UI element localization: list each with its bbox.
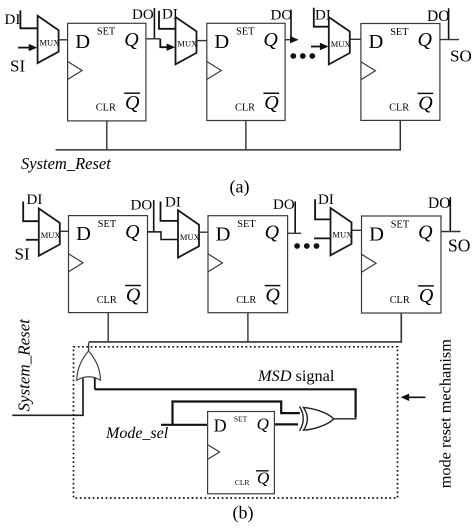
wire CLR bus (part b) bbox=[89, 313, 402, 342]
wire DO tap (stage 3, part b) bbox=[449, 197, 451, 231]
ellipsis dots (part a) bbox=[290, 53, 315, 59]
svg-text:Q: Q bbox=[257, 469, 269, 488]
wire FF5 Q output bbox=[288, 232, 301, 234]
wire DI1 to MUX U4 bbox=[23, 202, 39, 222]
svg-text:CLR: CLR bbox=[235, 103, 255, 114]
dashed box: mode reset mechanism bbox=[74, 347, 398, 498]
wire SI into MUX U4 bbox=[26, 239, 39, 241]
svg-text:DI: DI bbox=[27, 192, 43, 208]
svg-text:MUX: MUX bbox=[332, 230, 352, 240]
MUX U4 (part b) bbox=[39, 209, 61, 256]
svg-text:(b): (b) bbox=[233, 503, 254, 524]
OR gate U7 output stub bbox=[88, 343, 90, 352]
wire DO1 tap bbox=[153, 8, 155, 40]
wire FF4 CLR drop (part b) bbox=[107, 313, 109, 342]
wire DO3 tap bbox=[448, 8, 450, 39]
MUX U2 (part a) bbox=[176, 17, 198, 64]
wire MUX U4 output to FF4 D bbox=[60, 230, 69, 232]
wire FF2 Q output with arrow bbox=[285, 36, 299, 43]
svg-text:DO: DO bbox=[273, 197, 295, 213]
svg-text:DO: DO bbox=[271, 8, 293, 24]
svg-text:Q: Q bbox=[124, 29, 139, 51]
wire FF5 CLR drop (part b) bbox=[247, 313, 249, 342]
wire MUX U3 output to FF3 D bbox=[350, 38, 361, 40]
svg-text:Mode_sel: Mode_sel bbox=[105, 425, 169, 442]
svg-text:D: D bbox=[369, 31, 384, 53]
svg-text:Q: Q bbox=[125, 221, 140, 243]
wire Mode_sel to FF7 D bbox=[161, 424, 208, 426]
svg-text:SET: SET bbox=[97, 27, 116, 38]
svg-text:Q: Q bbox=[264, 92, 279, 114]
wire SI with arrow into MUX U1 bbox=[18, 44, 37, 51]
wire DI3 to MUX U3 bbox=[314, 8, 329, 27]
wire Mode_sel feed-forward to XOR input bbox=[173, 402, 300, 425]
svg-text:Q: Q bbox=[265, 221, 280, 243]
svg-text:DI: DI bbox=[5, 12, 21, 28]
svg-text:CLR: CLR bbox=[96, 103, 116, 114]
svg-text:DO: DO bbox=[132, 7, 154, 23]
svg-text:DI: DI bbox=[165, 195, 181, 211]
svg-text:MUX: MUX bbox=[177, 39, 197, 49]
wire DI1 to MUX U1 bbox=[20, 10, 37, 28]
svg-text:SET: SET bbox=[234, 415, 248, 424]
wire scan link into MUX U3 with arrow bbox=[311, 43, 329, 50]
arrow pointing at mechanism box bbox=[401, 394, 426, 401]
MUX U1 (part a) bbox=[38, 16, 60, 63]
svg-text:D: D bbox=[214, 415, 227, 435]
svg-text:DO: DO bbox=[427, 8, 449, 25]
svg-text:DI: DI bbox=[318, 192, 334, 208]
svg-text:MUX: MUX bbox=[180, 232, 200, 242]
MUX U3 (part a) bbox=[329, 17, 351, 64]
wire DI2 to MUX U5 bbox=[161, 202, 179, 221]
wire MUX U2 output to FF2 D bbox=[197, 40, 207, 42]
wire MUX U5 output to FF5 D bbox=[199, 231, 208, 233]
svg-text:SET: SET bbox=[236, 27, 255, 38]
wire XOR output bbox=[334, 418, 357, 420]
svg-text:Q: Q bbox=[265, 285, 280, 307]
wire FF1 Q output bbox=[146, 38, 160, 40]
svg-text:CLR: CLR bbox=[97, 295, 117, 306]
svg-text:System_Reset: System_Reset bbox=[21, 154, 111, 173]
svg-text:mode reset mechanism: mode reset mechanism bbox=[436, 339, 455, 489]
svg-text:Q: Q bbox=[418, 222, 433, 244]
svg-text:Q: Q bbox=[418, 29, 433, 51]
svg-text:(a): (a) bbox=[230, 177, 250, 198]
wire MUX U6 output to FF6 D bbox=[352, 229, 362, 231]
MUX U6 (part b) bbox=[331, 208, 353, 255]
flip-flop FF4 (part b) bbox=[69, 216, 148, 313]
flip-flop FF6 (part b) bbox=[362, 216, 442, 313]
wire DO tap (stage 1, part b) bbox=[153, 200, 155, 232]
svg-text:Q: Q bbox=[257, 415, 269, 434]
svg-text:Q: Q bbox=[125, 92, 140, 114]
svg-text:SO: SO bbox=[448, 236, 470, 256]
svg-text:SET: SET bbox=[237, 219, 256, 230]
svg-text:System_Reset: System_Reset bbox=[15, 318, 34, 412]
wire scan link FF1-Q to MUX U2 with arrow bbox=[160, 39, 175, 51]
wire DI3 to MUX U6 bbox=[315, 199, 330, 219]
wire FF2 CLR drop (part a) bbox=[245, 121, 247, 151]
svg-text:CLR: CLR bbox=[389, 103, 409, 114]
ellipsis dots (part b) bbox=[294, 243, 319, 249]
wire FF1 CLR drop (part a) bbox=[106, 121, 108, 150]
svg-text:CLR: CLR bbox=[390, 295, 410, 306]
svg-text:SET: SET bbox=[391, 219, 410, 230]
svg-text:D: D bbox=[369, 224, 384, 246]
svg-text:Q: Q bbox=[418, 92, 433, 114]
wire FF4 Q to MUX U5 scan input bbox=[148, 232, 179, 240]
flip-flop FF3 (part a) bbox=[361, 24, 440, 121]
flip-flop FF2 (part a) bbox=[207, 23, 285, 120]
wire scan link into MUX U6 bbox=[314, 237, 331, 239]
svg-text:MSD signal: MSD signal bbox=[257, 366, 335, 385]
svg-text:Q: Q bbox=[419, 285, 434, 307]
OR gate U7 bbox=[77, 351, 101, 380]
svg-text:MUX: MUX bbox=[331, 39, 351, 49]
svg-text:SI: SI bbox=[10, 57, 25, 76]
svg-text:Q: Q bbox=[263, 29, 278, 51]
wire System_Reset bus (part a) bbox=[56, 120, 401, 149]
svg-text:CLR: CLR bbox=[236, 295, 256, 306]
wire DI2 to MUX U2 bbox=[159, 11, 176, 29]
svg-text:D: D bbox=[216, 223, 231, 245]
svg-text:Q: Q bbox=[126, 284, 141, 306]
MUX U5 (part b) bbox=[178, 210, 200, 257]
wire MUX U1 output to FF1 D bbox=[59, 39, 68, 41]
wire MSD signal line from XOR output bbox=[95, 389, 356, 417]
svg-text:MUX: MUX bbox=[41, 230, 61, 240]
svg-text:MUX: MUX bbox=[40, 38, 60, 48]
svg-text:D: D bbox=[76, 223, 91, 245]
svg-text:CLR: CLR bbox=[235, 478, 250, 487]
svg-text:DO: DO bbox=[428, 195, 450, 212]
svg-text:SI: SI bbox=[15, 245, 30, 264]
svg-text:SET: SET bbox=[98, 219, 117, 230]
wire System_Reset input (part b) bbox=[12, 378, 83, 415]
XOR gate U8 bbox=[303, 407, 333, 430]
wire MSD to OR gate input bbox=[94, 378, 96, 390]
wire FF7 Q to XOR input bbox=[274, 423, 298, 425]
flip-flop FF1 (part a) bbox=[68, 23, 146, 121]
svg-text:SO: SO bbox=[450, 46, 472, 65]
flip-flop FF7 (mode register) bbox=[208, 412, 275, 494]
svg-text:D: D bbox=[214, 31, 229, 53]
wire FF6 Q output SO bbox=[441, 231, 461, 233]
svg-text:D: D bbox=[75, 31, 90, 53]
svg-text:SET: SET bbox=[390, 27, 409, 38]
wire FF3 Q output SO bbox=[440, 39, 459, 41]
svg-text:DO: DO bbox=[131, 197, 153, 213]
flip-flop FF5 (part b) bbox=[208, 216, 288, 313]
wire DO2 tap bbox=[290, 10, 292, 40]
XOR gate U8 input arc bbox=[300, 407, 304, 431]
wire DO tap (stage 2, part b) bbox=[294, 201, 296, 233]
